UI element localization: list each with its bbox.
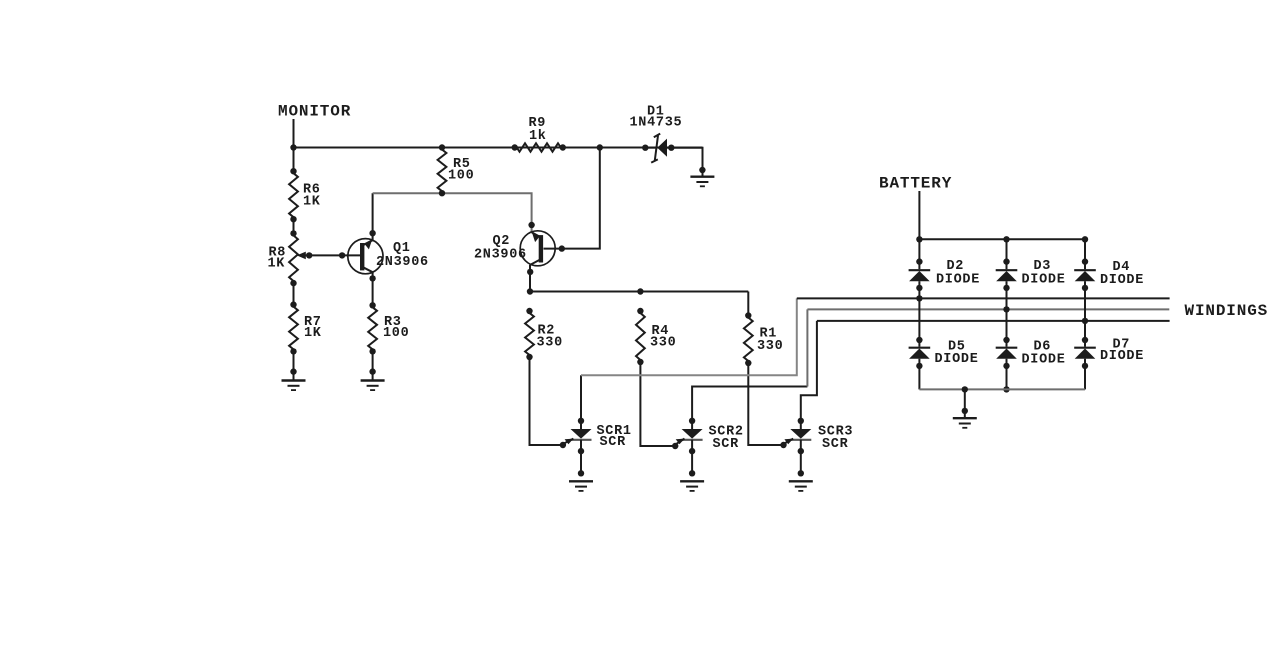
svg-text:330: 330 — [537, 336, 563, 351]
wire R5 bottom to Q1 — [373, 192, 442, 194]
net label WINDINGS — [1185, 302, 1269, 320]
wire top rail — [294, 147, 703, 149]
resistor R8 potentiometer — [289, 235, 298, 281]
diode D5 — [909, 337, 931, 369]
thyristor SCR1 — [569, 418, 593, 491]
label R7 value — [304, 315, 322, 341]
wire MONITOR stem — [293, 119, 295, 148]
resistor R6 — [289, 173, 298, 222]
label R8 value — [268, 246, 287, 272]
resistor R9 — [512, 143, 567, 151]
wire SCR1 anode lead — [580, 375, 582, 421]
wire bridge bottom bus — [919, 386, 1085, 392]
wire D3-D6 column — [1003, 288, 1009, 340]
label D4 — [1100, 260, 1144, 288]
diode D6 — [996, 337, 1018, 369]
label Q2 — [474, 234, 527, 263]
wire D4 column top — [1084, 239, 1086, 261]
net label BATTERY — [879, 175, 952, 193]
label D1 — [630, 105, 683, 131]
transistor Q2 — [520, 231, 555, 266]
svg-text:Q1: Q1 — [393, 241, 411, 256]
ground below D1 — [690, 177, 714, 187]
svg-text:100: 100 — [448, 169, 474, 184]
diode D2 — [909, 258, 931, 291]
wire Q2 base to rail — [544, 148, 600, 252]
svg-text:MONITOR: MONITOR — [278, 102, 351, 120]
wire SCR2 anode to winding 2 — [692, 387, 807, 421]
svg-text:SCR: SCR — [713, 437, 740, 452]
svg-text:2N3906: 2N3906 — [376, 255, 429, 270]
resistor R4 — [636, 308, 645, 365]
svg-text:DIODE: DIODE — [1022, 273, 1066, 288]
svg-text:1K: 1K — [303, 195, 321, 210]
resistor R5 — [438, 144, 447, 196]
diode D4 — [1074, 258, 1096, 291]
wire gate bus — [527, 288, 749, 294]
wire winding 2 — [807, 308, 1169, 310]
wire D1 to ground — [671, 148, 705, 177]
thyristor SCR2 — [680, 418, 704, 491]
ground bridge — [953, 418, 977, 428]
svg-text:DIODE: DIODE — [936, 273, 980, 288]
wire R8 to R7 — [290, 280, 296, 308]
svg-text:WINDINGS: WINDINGS — [1185, 302, 1269, 320]
label D5 — [935, 340, 979, 368]
label R6 value — [303, 183, 321, 210]
svg-text:BATTERY: BATTERY — [879, 175, 952, 193]
svg-text:330: 330 — [650, 336, 676, 351]
svg-text:330: 330 — [757, 339, 783, 354]
resistor R1 — [744, 312, 753, 366]
label R3 value — [383, 315, 409, 341]
wire D5 bottom drop — [918, 366, 920, 390]
wire bridge top bus — [916, 236, 1088, 242]
net label MONITOR — [278, 102, 351, 120]
wire winding 1 — [797, 297, 1170, 299]
wire SCR1 anode to winding 1 — [581, 298, 797, 375]
wire R4 to SCR2 gate — [640, 362, 675, 446]
wire R2 to SCR1 gate — [530, 357, 563, 445]
svg-text:1k: 1k — [529, 129, 547, 144]
SCR2 gate arrow — [672, 439, 685, 450]
node rail-left junction — [290, 144, 296, 150]
wire BATTERY stem — [918, 191, 920, 239]
wire bus to R1 — [747, 292, 749, 316]
resistor R3 — [368, 307, 377, 349]
wire D6 bottom drop — [1003, 366, 1009, 393]
wire R8 wiper to Q1 base — [297, 252, 361, 260]
wire R6 to R8 — [290, 219, 296, 236]
wire winding 3 — [817, 320, 1170, 322]
ground below R3 — [361, 381, 385, 391]
wire D3 column top — [1006, 239, 1008, 261]
svg-text:1N4735: 1N4735 — [630, 116, 683, 131]
label D3 — [1022, 259, 1066, 288]
wire Q1 emitter — [369, 272, 375, 308]
wire rail to R6 — [290, 148, 296, 175]
label SCR1 — [597, 424, 632, 450]
SCR1 gate arrow — [560, 439, 574, 449]
wire D7 bottom drop — [1084, 366, 1086, 390]
diode D7 — [1074, 337, 1096, 369]
zener diode D1 — [642, 134, 674, 163]
label SCR2 — [709, 425, 744, 453]
label R1 value — [757, 327, 783, 355]
wire R5 bottom to Q2 — [442, 193, 532, 232]
label R2 value — [537, 324, 563, 351]
svg-text:DIODE: DIODE — [1100, 349, 1144, 364]
label SCR3 — [818, 425, 853, 453]
label D2 — [936, 259, 980, 288]
wire winding 2 drop — [806, 309, 808, 386]
wire Q2 emitter down — [527, 265, 533, 292]
resistor R2 — [525, 308, 534, 360]
thyristor SCR3 — [789, 418, 813, 491]
transistor Q1 — [348, 239, 383, 274]
wire D2-D5 column — [916, 288, 922, 340]
wire D2 column top — [918, 239, 920, 261]
svg-text:2N3906: 2N3906 — [474, 248, 527, 263]
wire R3 to ground — [369, 348, 375, 380]
label Q1 — [376, 241, 429, 270]
SCR3 gate arrow — [780, 439, 793, 449]
wire D4-D7 column — [1082, 288, 1088, 340]
svg-text:100: 100 — [383, 326, 409, 341]
svg-text:SCR: SCR — [600, 435, 627, 450]
label D7 — [1100, 338, 1144, 365]
svg-text:1K: 1K — [268, 257, 286, 272]
wire SCR3 anode to winding 3 — [801, 321, 817, 421]
resistor R7 — [289, 307, 298, 355]
svg-text:1K: 1K — [304, 326, 322, 341]
node Q2 feedback junction — [597, 144, 603, 150]
wire Q2 top lead — [528, 222, 534, 228]
ground below R7 — [282, 381, 306, 391]
svg-text:DIODE: DIODE — [1100, 273, 1144, 288]
wire Q1 collector — [369, 193, 375, 240]
label D6 — [1022, 340, 1066, 368]
diode D3 — [996, 258, 1018, 291]
label R5 value — [448, 157, 474, 184]
svg-text:SCR: SCR — [822, 437, 849, 452]
svg-text:DIODE: DIODE — [935, 352, 979, 367]
label R9 value — [529, 116, 547, 144]
wire bridge ground stem — [962, 389, 968, 418]
wire R7 to ground — [290, 351, 296, 380]
svg-text:DIODE: DIODE — [1022, 353, 1066, 368]
label R4 value — [650, 324, 676, 351]
wire R1 to SCR3 gate — [748, 363, 783, 445]
